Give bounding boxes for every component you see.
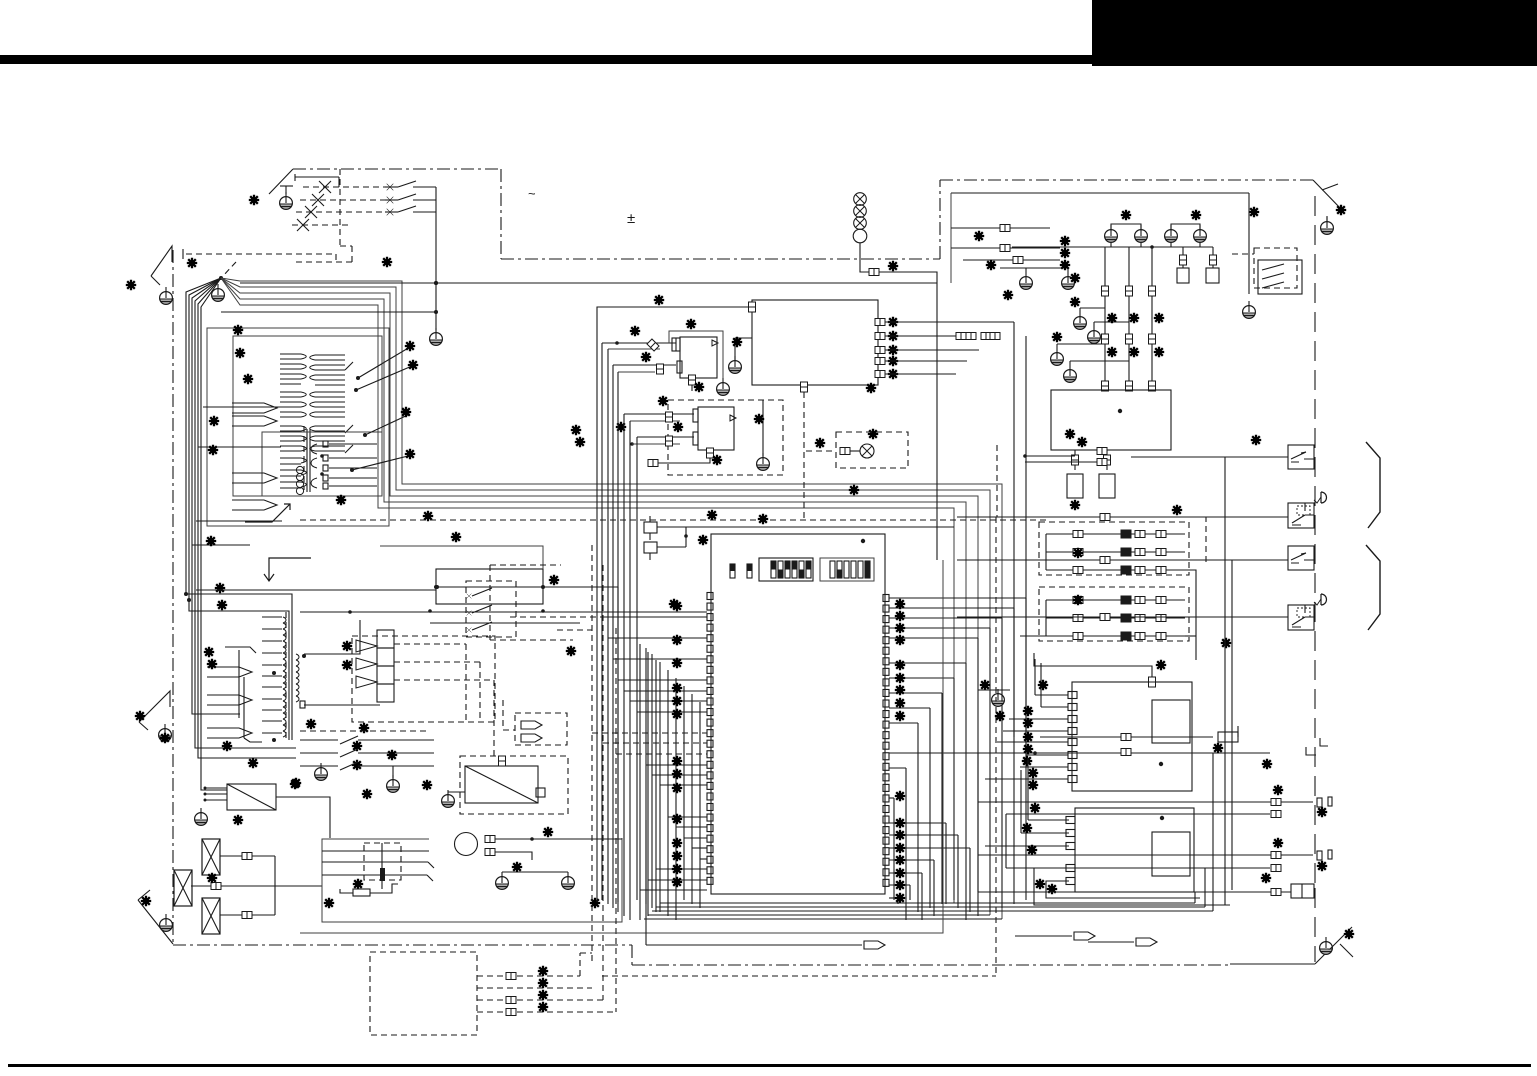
footnote star [387,750,397,760]
wire loom ring4 [221,278,966,907]
wire SB2 [957,516,1288,518]
footnote star [686,319,696,329]
wire U4 a2 [630,420,680,422]
wire S2 wrap b [1046,881,1200,898]
connector [840,448,850,455]
wire T1 tap diag2 [356,366,412,390]
connector [485,849,495,856]
chevron stack b [356,658,377,670]
wire bus tap [221,311,436,313]
footnote star [306,719,316,729]
wire M1 link [340,889,353,893]
connector tilted [647,339,659,351]
node K1 junctions [434,585,438,589]
ground [992,689,1005,706]
wire risers right edge [977,753,979,892]
wire loom v1 [186,278,292,740]
footnote star [1070,297,1080,307]
footnote star [512,862,522,872]
node U6 dot [1118,409,1122,413]
terminal stubs [1317,798,1322,807]
footnote star [866,383,876,393]
transformer T2 secondary [296,654,299,702]
footnote star [1249,207,1259,217]
footnote star [641,352,651,362]
module S2 body [1075,808,1194,892]
node corner bottom-right [1315,927,1352,964]
wire T1 tap diag3 [365,414,410,435]
connector U2 left [749,302,756,312]
wire SB3 [957,559,1288,561]
footnote star [815,438,825,448]
connector U3 bottom [689,375,696,385]
relay RB1 body [1177,268,1189,283]
footnote star [423,511,433,521]
connector [1100,614,1110,621]
relay K1 body [436,569,543,604]
footnote star [694,382,704,392]
wire conn rows left [951,227,1050,229]
wire T1 input rows [203,406,281,408]
wire dashed link [997,445,1206,563]
footnote star [382,257,392,267]
terminal stub [1218,732,1238,742]
connector U4 bottom [707,448,714,458]
ground PSU1 [195,808,208,825]
footnote star [1003,290,1013,300]
footnote star [1070,500,1080,510]
module U3 body [680,337,717,378]
wire U3 a [602,342,676,344]
wire SB4 [957,616,1288,618]
connector pins T1 [323,441,328,447]
footnote star [187,258,197,268]
connector [1097,448,1107,455]
connector pins U1 left [707,593,713,600]
footnote star [669,599,679,609]
ground [1062,272,1075,289]
transformer T1 core [303,426,305,490]
header title block [1092,0,1537,66]
footnote star [362,789,372,799]
footnote star [1077,437,1087,447]
wire U1 right rows [889,597,1026,599]
wire U2 right rows [885,321,1014,323]
footnote star [654,295,664,305]
ground U3a [729,356,742,373]
ic U1 body [711,534,885,894]
footnote star [1221,638,1231,648]
svg-text:±: ± [627,210,635,227]
relay RB2 body [1206,268,1219,283]
wire U1 left rows [602,616,707,618]
connector pins U2 right [875,319,885,326]
wire U1 dashed rows [592,732,707,734]
chevron stack c [356,676,377,688]
footnote star [758,514,768,524]
wire gnd b [1080,307,1105,309]
footnote star [1052,332,1062,342]
breaker X1 [202,839,220,875]
module M1 body [322,838,622,922]
wire ground bridge a [1111,224,1141,229]
footnote star [1191,210,1201,220]
wire K1 row3 [430,622,580,624]
node corner top-right [1313,180,1343,211]
footnote star [405,341,415,351]
footnote star [1027,845,1037,855]
ground corner bottom-left [160,914,173,931]
wire gnd d [1057,343,1105,345]
footnote star [1060,260,1070,270]
relay M1 dashed [364,843,401,880]
footnote star [1261,873,1271,883]
footnote star [1030,803,1040,813]
wire S2 wrap a [1034,868,1230,905]
ground U3b [717,378,730,395]
rectifier PSU1 [227,784,276,810]
footnote star [1317,807,1327,817]
wire cap link [657,526,954,528]
connector chain [956,333,966,340]
footnote star [995,711,1005,721]
switch rows mid [300,739,338,741]
wire T1 tap diag4 [352,456,408,470]
footnote star [658,396,668,406]
wire U4 b [637,436,694,438]
plug arrows dashed enclosure [515,713,567,745]
wire gnd e [1070,360,1129,362]
wire loom v3 [192,278,240,714]
connector [506,997,516,1004]
footnote star column [538,966,548,976]
footnote star [451,532,461,542]
footnote star cluster T2 [222,741,232,751]
wire riser x1129 [1128,247,1130,390]
footnote star [1121,210,1131,220]
chevron feed T1a [232,403,277,413]
footnote star [732,337,742,347]
switch SB4 [1288,594,1327,630]
wire U4 a [624,413,694,415]
footnote star [1273,785,1283,795]
chevron feed T2b [207,695,252,705]
wire row y737 [1040,736,1213,738]
relay RC body [1258,260,1302,294]
wire S2 pins [1028,819,1069,821]
wire U3 drop [691,385,693,391]
wire U4 b2 [632,443,680,445]
connector [1000,245,1010,252]
wire pair rows A [978,801,1313,803]
footnote star [1038,680,1048,690]
junction box dashed [370,952,477,1035]
wire chassis border top-right [940,179,1313,181]
ground M1a [496,872,509,889]
footnote star [1251,435,1261,445]
dip switch block A [759,558,813,581]
node corner bottom-left [138,900,173,944]
footnote star [1344,929,1354,939]
plug arrow a [521,721,542,729]
footnote star [575,437,585,447]
wire stub [294,174,296,181]
bracket right group1 [1366,442,1380,528]
connector [1000,225,1010,232]
wire U3 gray loop [669,331,723,381]
wire U6 link [1025,455,1075,457]
footnote star [1317,861,1327,871]
module S1 body [1072,682,1192,791]
footnote star [590,898,600,908]
antenna mast [269,169,293,194]
module U2 body [752,300,878,385]
rectifier PSU2 [465,766,538,803]
transformer T1 primary winding [280,353,301,355]
footnote star [401,407,411,417]
connector [1180,255,1187,265]
connector PSU2 right [536,788,545,797]
rectifier PSU2 dashed enclosure [460,756,568,814]
transformer T2 winding [262,616,282,618]
wire arrow run b [1015,935,1072,937]
footnote star [673,422,683,432]
ground corner top-left [160,287,173,304]
junction rows dashed box B [1039,587,1189,641]
ground [1020,272,1033,289]
footnote star [141,896,151,906]
wire dashed out rows [477,975,580,977]
node corner top-left [151,246,172,276]
ground corner bottom-right [1320,937,1333,954]
wire K1 riser [617,587,619,902]
header bar [0,55,1092,64]
wire U3 b [613,364,676,366]
wire PSU1 inputs [205,787,227,789]
ground row [1105,225,1118,242]
footnote star [1065,429,1075,439]
wire X2 [191,885,275,887]
wire row group A [1046,533,1185,535]
footnote star [543,827,553,837]
connector [648,460,658,467]
chevron feed T2a [207,667,252,677]
adjust arrow T1 [245,504,290,522]
wire U1 right risers [1013,322,1015,737]
footnote star [712,455,722,465]
switch taps T1 [345,362,353,370]
footnote star [707,510,717,520]
footnote star [1336,205,1346,215]
wire chassis border top step [500,169,502,259]
footnote star [135,711,145,721]
wire PSU2 left [448,791,465,793]
contact M1 [380,868,385,881]
wire T1 tap diag1 [358,347,410,378]
node loom fan [219,276,223,280]
footnote star [566,646,576,656]
ground [1088,326,1101,343]
breaker X2 [174,870,192,906]
switch K1 contacts [472,588,492,596]
adjust arrow down [264,558,311,581]
pin U3 in2 [677,361,682,373]
wire pair rows B [978,854,1313,856]
crossed-out links [319,181,331,193]
footnote star [1073,548,1083,558]
footnote star [986,260,996,270]
plug arrow b [521,734,542,742]
fan motor M2 [455,833,478,856]
capacitor C1 [644,522,657,533]
footnote star row b [1107,347,1117,357]
bracket right group2 [1366,545,1380,630]
pin U3 flag [712,340,718,346]
wire dashed cross [300,519,1048,521]
wire arrow run c [1088,941,1134,943]
footnote star [249,195,259,205]
footnote star [1172,505,1182,515]
ground PSU2 [442,790,455,807]
connector S1 top [1149,677,1156,687]
terminal stubs [1317,851,1322,860]
wire stack out dashed [394,643,466,645]
wire top feed [951,192,1249,194]
footnote star [408,360,418,370]
node S1 dot [1159,762,1163,766]
plug arrow [1136,938,1157,946]
switch S1c [385,211,398,213]
dip switch block B [820,558,874,581]
footnote star [630,326,640,336]
footnote star [1073,595,1083,605]
switch SB2 [1288,492,1327,528]
footnote star [549,575,559,585]
transformer T1 aux winding [262,432,382,496]
terminal stub b [1306,747,1316,755]
wire SB1 [1131,456,1288,458]
node U1 dot [861,539,865,543]
connector [666,436,673,446]
wire lamp feed [860,243,937,283]
relay stack body [377,630,394,648]
wire S1 ground row [978,689,1010,691]
wire gray return [300,560,943,933]
wire S1 top feed [1034,653,1152,677]
footnote star [353,879,363,889]
resistor M1 [353,889,370,896]
capacitor C2 [644,542,657,553]
connector [1271,811,1281,818]
wire RC left [1232,253,1254,255]
footnote star column U2 [888,317,898,327]
wire X3 [220,914,275,916]
wire dashed diag [222,262,236,277]
wire row y753 [1035,752,1270,754]
wire U3 b2 [618,371,655,373]
transformer T1 enclosure inner [233,336,382,496]
footer rule [8,1064,1531,1067]
connector [666,412,673,422]
connector [657,364,664,374]
footnote star [1022,823,1032,833]
footnote star [359,723,369,733]
module U4 dashed enclosure [668,400,783,475]
footnote star column S1 [1023,706,1033,716]
junction rows dashed box A [1039,522,1189,575]
footnote star [616,422,626,432]
footnote star cluster T1 [233,325,243,335]
wire ground bridge b [1171,224,1200,229]
transformer T1 secondary winding [315,354,345,356]
ground [1051,348,1064,365]
wire S1 pins [1035,694,1068,696]
wire mid bus [196,589,436,591]
wire loom ring5 [221,278,954,903]
wire U6 drops [1074,450,1076,470]
footnote star [405,449,415,459]
wire dashed risers [465,644,467,722]
footnote star [352,741,362,751]
node S2 dot [1160,816,1164,820]
switch SB1 [1288,445,1314,469]
connector [485,836,495,843]
connector [1121,749,1131,756]
wire right riser B [1231,560,1233,890]
wire X riser [274,856,276,915]
connector stack [1102,286,1109,296]
connector [869,269,879,276]
capacitor C3 [1067,474,1083,498]
footnote star [888,261,898,271]
footnote star [1047,884,1057,894]
wire dashed long [602,975,996,977]
ground G mid2 [387,775,400,792]
connector U2 bottom [801,382,808,392]
relay RC dashed [1254,248,1297,288]
lamp U5 dashed enclosure [836,432,908,468]
ground corner top-right [1321,217,1334,234]
wire loom v2 [189,278,289,740]
connector [506,1009,516,1016]
wire right riser A [1224,457,1226,905]
connector pin T2 [300,701,305,708]
wire U3 a2 [608,348,660,350]
footnote star [1213,743,1223,753]
ground U4 [757,453,770,470]
wire U2 left [597,307,748,902]
connector [1121,734,1131,741]
wire bottom bus [660,902,1195,904]
footnote star row a [1107,313,1117,323]
ground M1b [562,872,575,889]
wire T2 out2 [304,704,380,706]
footnote star [352,760,362,770]
pin U3 in1 [672,338,680,351]
footnote star [1262,759,1272,769]
connector [242,853,252,860]
connector [1100,514,1110,521]
wire dashed risers left [591,545,593,962]
transformer T2 frame [238,650,240,718]
wire K1 gray feed [380,546,543,569]
connector [1271,889,1281,896]
wire to ground bus [435,187,437,330]
wire RC feed [1248,193,1250,294]
wire riser x1105 [1104,247,1106,390]
connector [1100,557,1110,564]
footnote star [342,660,352,670]
